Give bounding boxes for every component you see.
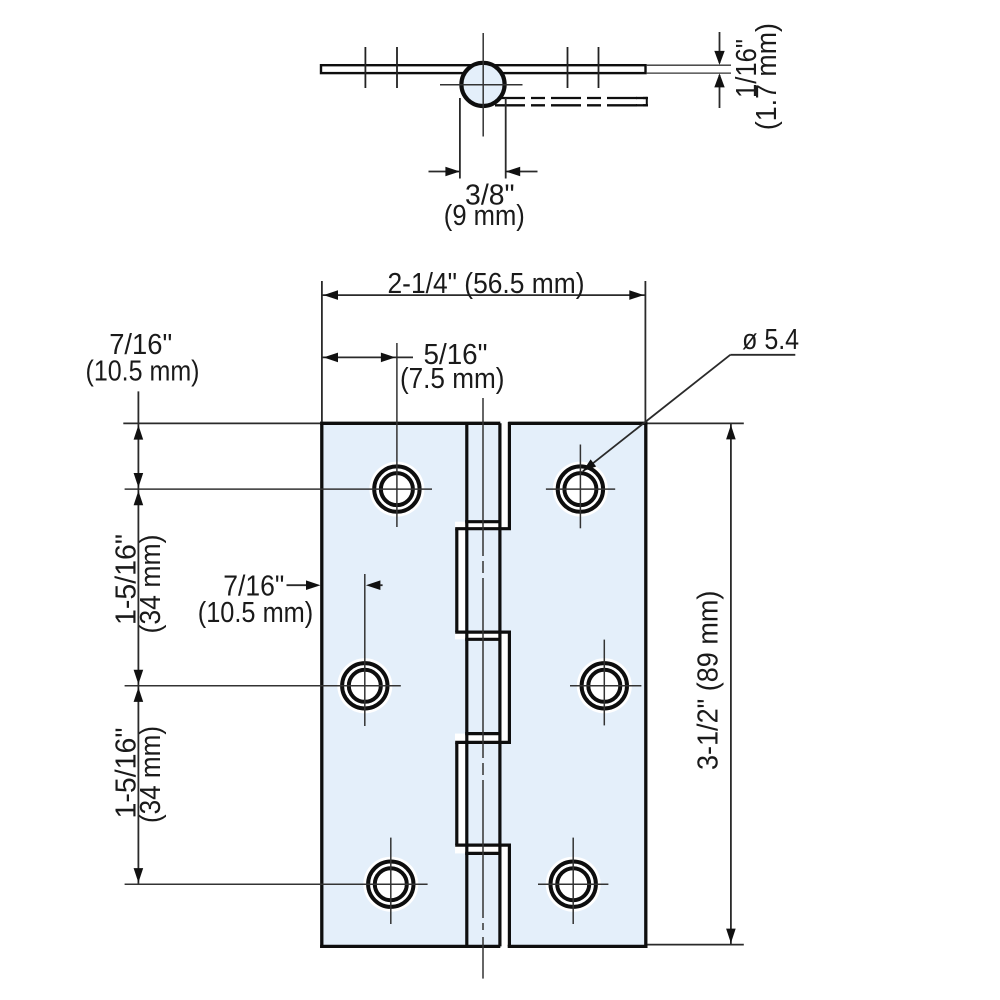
svg-text:(1.7 mm): (1.7 mm) bbox=[751, 23, 783, 130]
svg-text:(7.5 mm): (7.5 mm) bbox=[400, 363, 505, 395]
svg-text:(34 mm): (34 mm) bbox=[135, 535, 167, 634]
svg-text:(10.5 mm): (10.5 mm) bbox=[86, 355, 200, 387]
svg-text:3-1/2" (89 mm): 3-1/2" (89 mm) bbox=[693, 591, 725, 771]
svg-text:(34 mm): (34 mm) bbox=[135, 726, 167, 823]
svg-text:(10.5 mm): (10.5 mm) bbox=[198, 597, 314, 629]
svg-text:ø 5.4: ø 5.4 bbox=[742, 324, 799, 356]
svg-text:(9 mm): (9 mm) bbox=[444, 200, 525, 232]
svg-text:2-1/4" (56.5 mm): 2-1/4" (56.5 mm) bbox=[388, 268, 585, 300]
